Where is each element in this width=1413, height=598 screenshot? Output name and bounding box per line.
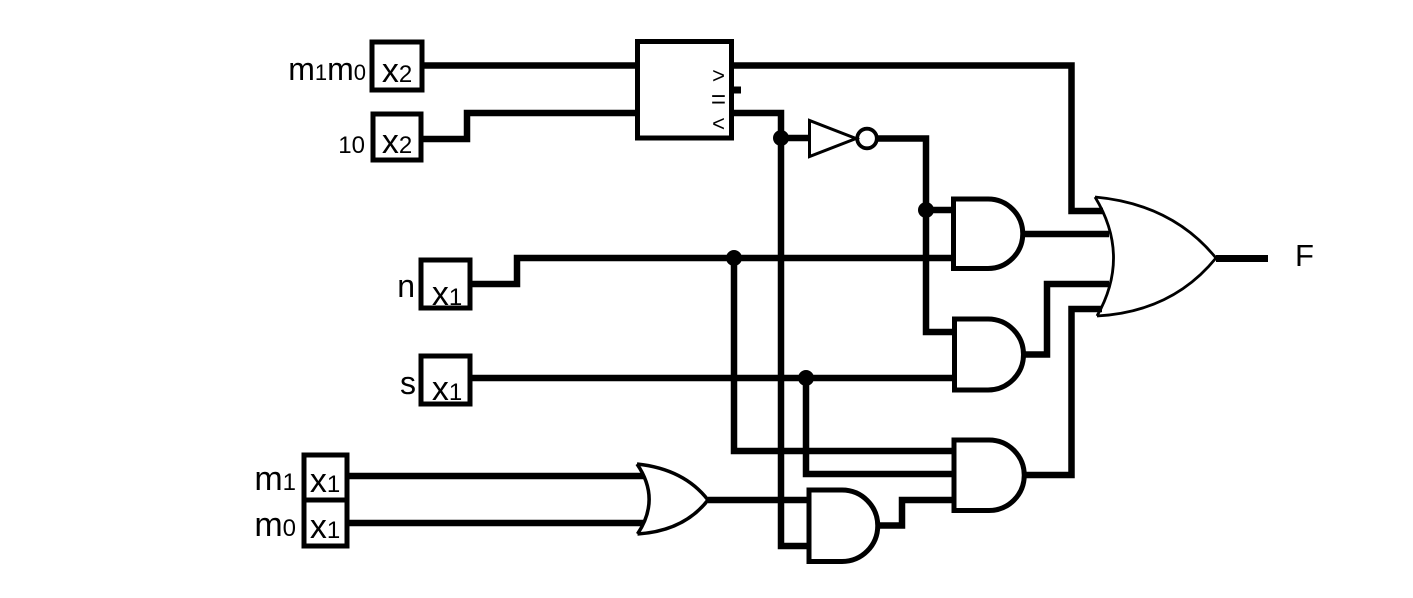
AND gate U5 (AND3) — [954, 440, 1024, 511]
comparator U1 — [638, 42, 732, 139]
wire node to AND4 bottom input — [781, 135, 810, 546]
svg-text:F: F — [1295, 238, 1314, 273]
input box m1m0 (x2) — [372, 42, 422, 90]
inverter U2 — [810, 121, 857, 157]
svg-text:10: 10 — [338, 132, 365, 159]
input box n (x1) — [421, 260, 470, 308]
wire AND3 output to big OR input 4 — [1024, 309, 1102, 475]
wire s to AND2 bottom input — [470, 375, 954, 382]
inverter bubble — [857, 129, 877, 149]
wire node to inverter input — [781, 135, 809, 142]
wire comparator > output to big OR input 1 — [731, 66, 1103, 212]
wire m0 to small OR — [347, 520, 644, 527]
wire AND4 output to AND3 input 3 — [877, 500, 954, 526]
wire big OR output to F — [1216, 255, 1268, 262]
wire AND2 output to big OR input 3 — [1023, 284, 1109, 355]
svg-text:=: = — [711, 84, 726, 114]
wire comparator < output down to node — [731, 113, 781, 138]
AND gate U6 (AND2) — [955, 319, 1024, 390]
input box m1 (x1) — [304, 455, 347, 500]
svg-text:n: n — [397, 268, 415, 304]
svg-text:s: s — [400, 365, 416, 401]
small OR gate U3 — [637, 464, 708, 534]
junction dot s branch — [798, 370, 814, 386]
wire m1 to small OR — [347, 473, 644, 480]
wire small OR output to AND4 top input — [708, 497, 810, 504]
input box s (x1) — [421, 356, 470, 404]
junction dot n branch — [726, 250, 742, 266]
big OR gate U8 — [1095, 197, 1216, 316]
wire junction to AND1 top input — [926, 207, 954, 214]
wire 10 to comparator — [421, 113, 637, 139]
wire m1m0 to comparator — [422, 62, 637, 69]
wire inverter output to AND1/AND2 top inputs — [878, 139, 956, 333]
wire AND1 output to big OR input 2 — [1021, 231, 1109, 238]
junction dot at < node — [773, 130, 789, 146]
svg-text:<: < — [712, 111, 725, 136]
input box m0 (x1) — [304, 500, 347, 546]
AND gate U7 (AND1) — [954, 199, 1023, 269]
wire n to AND1 bottom input — [470, 258, 954, 284]
input box 10 (x2) — [373, 114, 421, 160]
junction dot inverter branch — [918, 202, 934, 218]
wire s branch down to AND3 input 2 — [806, 378, 954, 474]
AND gate U4 (AND4 bottom middle) — [809, 490, 878, 562]
wire n branch down to AND3 input 1 — [734, 258, 954, 451]
comparator = output stub — [731, 87, 741, 94]
